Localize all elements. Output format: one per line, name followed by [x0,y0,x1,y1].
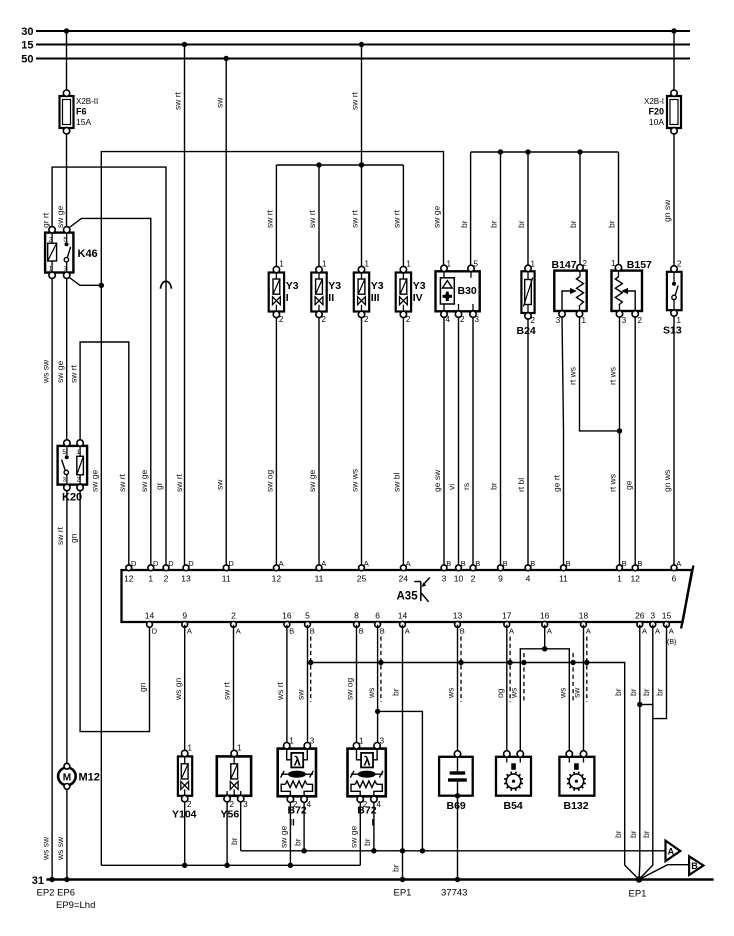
svg-text:2: 2 [279,315,284,324]
wire rt ws B157 pin 3 to A35 pin 1B [619,317,621,568]
svg-text:rs: rs [461,483,471,490]
svg-text:br: br [613,688,623,696]
svg-text:4: 4 [446,315,451,324]
svg-text:6: 6 [672,574,677,584]
svg-text:K46: K46 [78,248,98,260]
sensor B30 [436,260,480,325]
junction ground bus B72-I pin 4 [371,848,376,853]
junction rail pin 14A br wire [400,877,405,882]
svg-text:1: 1 [289,737,294,746]
wire sw og A35 pin 8B to B72-I pin 1 [356,625,358,743]
svg-text:D: D [228,559,234,568]
wire sw rt K20 pin 3 to M12 [66,488,68,765]
svg-text:br: br [391,864,401,872]
svg-text:12: 12 [272,574,282,584]
svg-text:1: 1 [406,260,411,269]
svg-text:15: 15 [21,40,33,52]
junction supply bus Y56 [224,863,229,868]
svg-text:A: A [642,627,647,636]
K20 coil [77,456,84,475]
svg-text:B157: B157 [627,259,652,271]
svg-text:11: 11 [222,574,231,584]
svg-text:rt ws: rt ws [608,367,618,385]
svg-text:sw rt: sw rt [350,91,360,110]
wire br bus to A35 pin 9B [500,152,502,567]
svg-text:2: 2 [583,259,588,268]
junction shield bus pin13B [458,660,463,665]
svg-text:D: D [131,559,137,568]
svg-text:br: br [568,220,578,228]
junction shield bus B132 left [570,660,575,665]
K20 switch [65,455,69,459]
svg-text:br: br [641,688,651,696]
wire ge B157 pin 2 to A35 pin 12B [634,317,636,568]
svg-text:F20: F20 [648,107,664,117]
svg-text:26: 26 [635,611,645,621]
svg-text:1: 1 [188,744,193,753]
svg-text:EP2 EP6: EP2 EP6 [37,888,76,899]
junction line30/F20 [671,28,676,33]
svg-text:λ: λ [363,753,371,768]
wire ws A35 pin 6B to B72-I pin 3 [377,625,379,743]
wire vi B30 pin 2 to A35 pin 10B [458,317,460,568]
wire ws sw M12 to ground rail [66,788,68,879]
wire sw bl Y3-IV to A35 pin 24A [402,317,404,567]
svg-text:br: br [628,830,638,838]
svg-text:1: 1 [279,260,284,269]
svg-text:gn ws: gn ws [662,470,672,492]
svg-text:2: 2 [531,316,536,325]
svg-text:ge sw: ge sw [432,469,442,492]
junction br bus / B147 [577,149,582,154]
wire rt ws B147 pin 1 jog to B157 pin 3 wire [580,317,620,431]
svg-text:A: A [364,559,369,568]
solenoid valve Y3 I [269,266,284,317]
wire ge sw B30 pin 4 to A35 pin 3B [443,317,445,568]
wire F6 supply from line 30 [66,31,68,90]
svg-text:1: 1 [617,574,622,584]
svg-text:sw ge: sw ge [349,826,359,848]
K46 coil [48,243,57,261]
svg-text:5: 5 [305,611,310,621]
wire br B72-II pin 4 drop [303,802,305,851]
shield wire A35 pin 5B [310,637,312,703]
svg-text:sw rt: sw rt [68,364,78,383]
svg-text:gn: gn [68,533,78,543]
svg-text:B: B [380,627,385,636]
svg-text:Y56: Y56 [221,809,240,821]
svg-text:11: 11 [559,574,568,584]
A35 injection symbol [414,578,430,602]
svg-text:15A: 15A [76,117,91,127]
junction pin 16A split [542,646,547,651]
svg-text:A: A [236,627,241,636]
wire gn K20 pin 2 to A35 pin 14D [80,488,149,732]
svg-text:rt bl: rt bl [516,478,526,492]
solenoid valve Y56 [217,744,251,810]
wire og A35 pin 17A to B54 pin left [506,625,508,753]
wire sw rt line 15 to injector bus [361,45,363,166]
svg-text:D: D [188,559,194,568]
speed sensor B54 [496,751,531,796]
svg-text:10A: 10A [649,117,664,127]
K46 switch [65,242,69,246]
svg-text:A: A [655,627,660,636]
svg-text:1: 1 [447,260,452,269]
svg-text:6: 6 [375,611,380,621]
svg-text:25: 25 [357,574,367,584]
svg-text:1: 1 [76,449,80,456]
relay K20 [58,440,88,491]
svg-text:2: 2 [231,611,236,621]
svg-text:14: 14 [145,611,155,621]
svg-text:br: br [628,688,638,696]
wire br drop to B24 pin 1 [527,152,529,266]
svg-text:vi: vi [447,484,457,490]
svg-text:A: A [509,627,514,636]
wire br drop to B30 pin 5 [470,152,472,266]
svg-text:B: B [566,559,571,568]
sensor B24 [521,260,535,326]
svg-text:sw ge: sw ge [307,470,317,492]
shield wire A35 pin 13B [460,637,462,703]
wire br drop to B147 pin 2 [579,152,581,266]
junction B72-I pin 3 branch [375,709,380,714]
svg-text:ws: ws [558,688,568,699]
junction shield bus B54 right [521,660,526,665]
wire ws A35 pin 16A split to B54 and B132 [520,625,569,753]
junction br bridge [637,702,642,707]
wire br A35 pin 14A to ground point EP1 [402,625,404,880]
fuse F20 10A [644,90,681,134]
svg-text:16: 16 [282,611,292,621]
svg-text:A: A [406,559,411,568]
svg-text:B54: B54 [504,800,523,812]
svg-text:ws sw: ws sw [40,836,50,861]
svg-text:sw rt: sw rt [350,209,360,228]
svg-text:D: D [153,559,159,568]
svg-text:16: 16 [540,611,550,621]
svg-text:Y3: Y3 [413,280,426,292]
lambda probe B72 I [348,737,386,810]
wire sw ge Y56 pin 2 drop [226,802,228,866]
svg-text:A: A [187,627,192,636]
svg-text:1: 1 [582,316,587,325]
svg-text:EP1: EP1 [394,888,412,899]
wire sw rt drop to Y3-IV [402,165,404,267]
capacitor B69 [439,751,473,799]
svg-text:3: 3 [63,266,67,273]
junction injector supply node [99,283,104,288]
ground node EP1 [636,876,642,882]
wire br A35 pin 26A to EP1 [638,625,641,880]
svg-text:EP9=Lhd: EP9=Lhd [56,900,95,911]
svg-text:B30: B30 [458,285,477,297]
svg-text:A35: A35 [397,591,419,603]
wire continuation arrow on gr wire [160,281,171,289]
svg-text:br: br [292,838,302,846]
svg-text:B: B [446,559,451,568]
svg-text:sw ws: sw ws [350,469,360,492]
wire sw og Y3-I to A35 pin 12A [275,317,277,567]
junction supply bus B72-II [288,863,293,868]
svg-text:3: 3 [380,737,385,746]
svg-text:sw rt: sw rt [265,209,275,228]
svg-text:EP1: EP1 [629,889,647,900]
svg-text:gr rt: gr rt [40,212,50,228]
wire br B72-I pin 3 branch to ground bus [378,711,423,850]
svg-text:ge: ge [623,480,633,490]
wire br drop to B157 pin 1 [618,152,620,266]
svg-text:12: 12 [630,574,640,584]
svg-text:3: 3 [475,315,480,324]
svg-text:II: II [328,292,334,304]
svg-text:31: 31 [32,875,44,887]
junction br bus / B24 [525,149,530,154]
svg-text:B: B [530,559,535,568]
wire EP1 to connector B [639,865,689,880]
svg-text:ws: ws [446,688,456,699]
svg-text:sw rt: sw rt [392,209,402,228]
svg-text:2: 2 [76,477,80,484]
relay K46 [45,227,73,279]
svg-text:9: 9 [498,574,503,584]
svg-text:B: B [289,627,294,636]
svg-text:A: A [405,627,410,636]
svg-text:9: 9 [182,611,187,621]
wire sw rt drop to Y3-III [361,165,363,267]
junction line50/sw [224,56,229,61]
svg-text:3: 3 [622,316,627,325]
svg-text:ws: ws [366,688,376,699]
A35 top edge pins [124,559,681,584]
svg-text:1: 1 [531,260,536,269]
wire br sensor ground bus [471,151,619,153]
svg-text:ws rt: ws rt [275,681,285,701]
svg-text:F6: F6 [76,107,87,117]
svg-text:gn sw: gn sw [662,199,672,222]
svg-text:2: 2 [460,315,465,324]
svg-text:5: 5 [62,449,66,456]
solenoid valve Y104 [178,744,193,810]
svg-text:4: 4 [376,800,381,809]
wire sw ge bottom supply bus to valves [101,864,360,866]
svg-text:3: 3 [442,574,447,584]
svg-text:sw rt: sw rt [117,473,127,492]
shield wire B132 left branch [572,653,574,702]
svg-text:2: 2 [364,315,369,324]
svg-text:A: A [321,559,326,568]
sensor B147 [554,259,587,325]
svg-text:gn: gn [138,682,148,692]
svg-text:X2B-II: X2B-II [76,97,98,106]
svg-text:3: 3 [650,611,655,621]
svg-text:I: I [286,292,289,304]
wire ws gn A35 pin 9A to Y104 pin 1 [184,625,186,751]
solenoid valve Y3 III [354,266,369,317]
wire bus terminal 15 [36,43,690,45]
connector triangle A [666,841,681,862]
svg-text:14: 14 [398,611,408,621]
svg-text:sw ge: sw ge [432,206,442,228]
svg-text:ws gn: ws gn [173,678,183,701]
svg-text:3: 3 [62,477,66,484]
svg-text:11: 11 [315,574,324,584]
svg-text:gr: gr [154,482,164,490]
wire ws A35 pin 13B to B69 [457,625,459,753]
A35 bottom edge pins [145,611,674,636]
svg-text:13: 13 [453,611,463,621]
wire sw ge injector supply down to bottom bus [100,285,102,865]
wire sw rt A35 pin 2A to Y56 pin 1 [233,625,235,751]
wire ws rt A35 pin 16B to B72-II pin 1 [286,625,288,743]
svg-text:(B): (B) [667,639,676,646]
svg-text:ws: ws [509,688,519,699]
svg-text:1: 1 [365,260,370,269]
svg-text:rt ws: rt ws [608,474,618,492]
svg-text:ws sw: ws sw [55,836,65,861]
svg-text:br: br [459,220,469,228]
junction rail B69 wire [455,877,460,882]
junction rail M12 wire [64,877,69,882]
shield wire A35 pin 6B [380,637,382,703]
svg-text:Y3: Y3 [371,280,384,292]
wire br Y56 pin 3 to ground bus [240,802,242,851]
svg-text:br: br [607,220,617,228]
svg-text:ge rt: ge rt [552,474,562,492]
junction shield bus pin5B [308,660,313,665]
junction rt ws merge [617,428,622,433]
svg-text:sw: sw [214,97,224,108]
svg-text:2: 2 [471,574,476,584]
svg-text:D: D [168,559,174,568]
svg-text:br: br [391,688,401,696]
svg-text:1: 1 [322,260,327,269]
svg-text:rt ws: rt ws [568,367,578,385]
svg-text:12: 12 [124,574,134,584]
svg-text:1: 1 [237,744,242,753]
wire br A35 pin 15A jog to pin 3A wire [653,625,667,719]
svg-text:B: B [637,559,642,568]
motor M12 [58,763,76,789]
svg-text:br: br [641,830,651,838]
wire sw ge B72-II pin 2 drop [289,802,291,865]
wire ground rail 31 [46,878,713,881]
svg-text:sw ge: sw ge [90,470,100,492]
svg-text:A: A [279,559,284,568]
svg-text:br: br [613,830,623,838]
svg-text:2: 2 [164,574,169,584]
svg-text:sw og: sw og [345,678,355,700]
svg-text:2: 2 [677,260,682,269]
wire gr rt / gr K46 pin 2 to A35 pin 2 [52,167,166,567]
solenoid valve Y3 II [311,266,326,317]
svg-text:III: III [371,292,380,304]
svg-text:B24: B24 [517,325,536,337]
svg-text:2: 2 [638,316,643,325]
wire B69 to ground rail [457,796,459,880]
wire sw rt drop to Y3-I [275,165,277,267]
wire sw ge Y104 pin 2 drop [184,802,186,866]
svg-text:br: br [655,688,665,696]
svg-text:ws sw: ws sw [40,359,50,384]
svg-text:2: 2 [49,237,53,244]
wire sw rt line 15 to A35 pin 13 [184,45,186,568]
svg-text:B: B [461,559,466,568]
junction injector bus Y3-II [316,162,321,167]
junction ground bus shield branch [420,848,425,853]
svg-text:B: B [503,559,508,568]
svg-text:10: 10 [454,574,464,584]
connector triangle B [689,856,703,875]
svg-text:A: A [676,559,681,568]
svg-text:M: M [63,772,71,783]
svg-text:sw ge: sw ge [55,361,65,383]
wire bus terminal 50 [36,57,690,59]
wire rt bl B24 pin 2 to A35 pin 4B [527,319,529,568]
svg-text:S13: S13 [663,325,682,337]
svg-text:A: A [668,846,675,856]
svg-text:br: br [489,220,499,228]
svg-text:5: 5 [474,260,479,269]
svg-text:sw rt: sw rt [174,473,184,492]
junction supply bus Y104 [182,863,187,868]
sensor B157 [611,259,642,325]
wire sw ge B72-I pin 2 drop [359,802,361,865]
svg-text:K20: K20 [62,492,82,504]
svg-text:A: A [547,627,552,636]
svg-text:sw rt: sw rt [222,681,232,700]
junction ground bus pin 14A wire [400,848,405,853]
wire gn sw F20 to S13 pin 2 [673,134,675,269]
junction line15/sw-rt [182,42,187,47]
svg-text:B: B [310,627,315,636]
wire br ground bus to flange A [241,850,666,852]
svg-text:og: og [495,688,505,698]
svg-text:1: 1 [359,737,364,746]
svg-text:sw rt: sw rt [55,526,65,545]
wire gn sw F20 supply from line 30 [673,31,675,90]
wire sw rt drop to Y3-II [318,165,320,267]
junction rail K46 pin 1 wire [49,877,54,882]
svg-text:sw og: sw og [265,470,275,492]
shield wire B54 right branch [523,653,525,702]
svg-text:5: 5 [63,237,67,244]
svg-text:IV: IV [413,292,423,304]
svg-text:br: br [489,482,499,490]
wire sw ws Y3-III to A35 pin 25A [361,317,363,567]
wire sw A35 pin 18A to B132 pin right [583,625,585,753]
wire sw ge Y3-II to A35 pin 11A [318,317,320,567]
svg-text:2: 2 [406,315,411,324]
svg-text:3: 3 [243,800,248,809]
svg-text:br: br [516,220,526,228]
svg-text:B: B [622,559,627,568]
svg-text:17: 17 [502,611,512,621]
speed sensor B132 [559,751,594,796]
svg-text:1: 1 [148,574,153,584]
svg-text:sw: sw [296,689,306,700]
svg-text:3: 3 [556,316,561,325]
junction ground bus B72-II pin 4 [301,848,306,853]
junction line30/F6 [64,28,69,33]
switch S13 [667,260,682,326]
wire bus terminal 30 [36,30,690,32]
wire br A35 pin 3A bridge to pin 26A wire [640,704,653,706]
wire sw ge K46 pin 3 branch to injector supply node [67,276,102,286]
svg-text:sw: sw [572,687,582,698]
lambda probe B72 II [278,737,316,810]
